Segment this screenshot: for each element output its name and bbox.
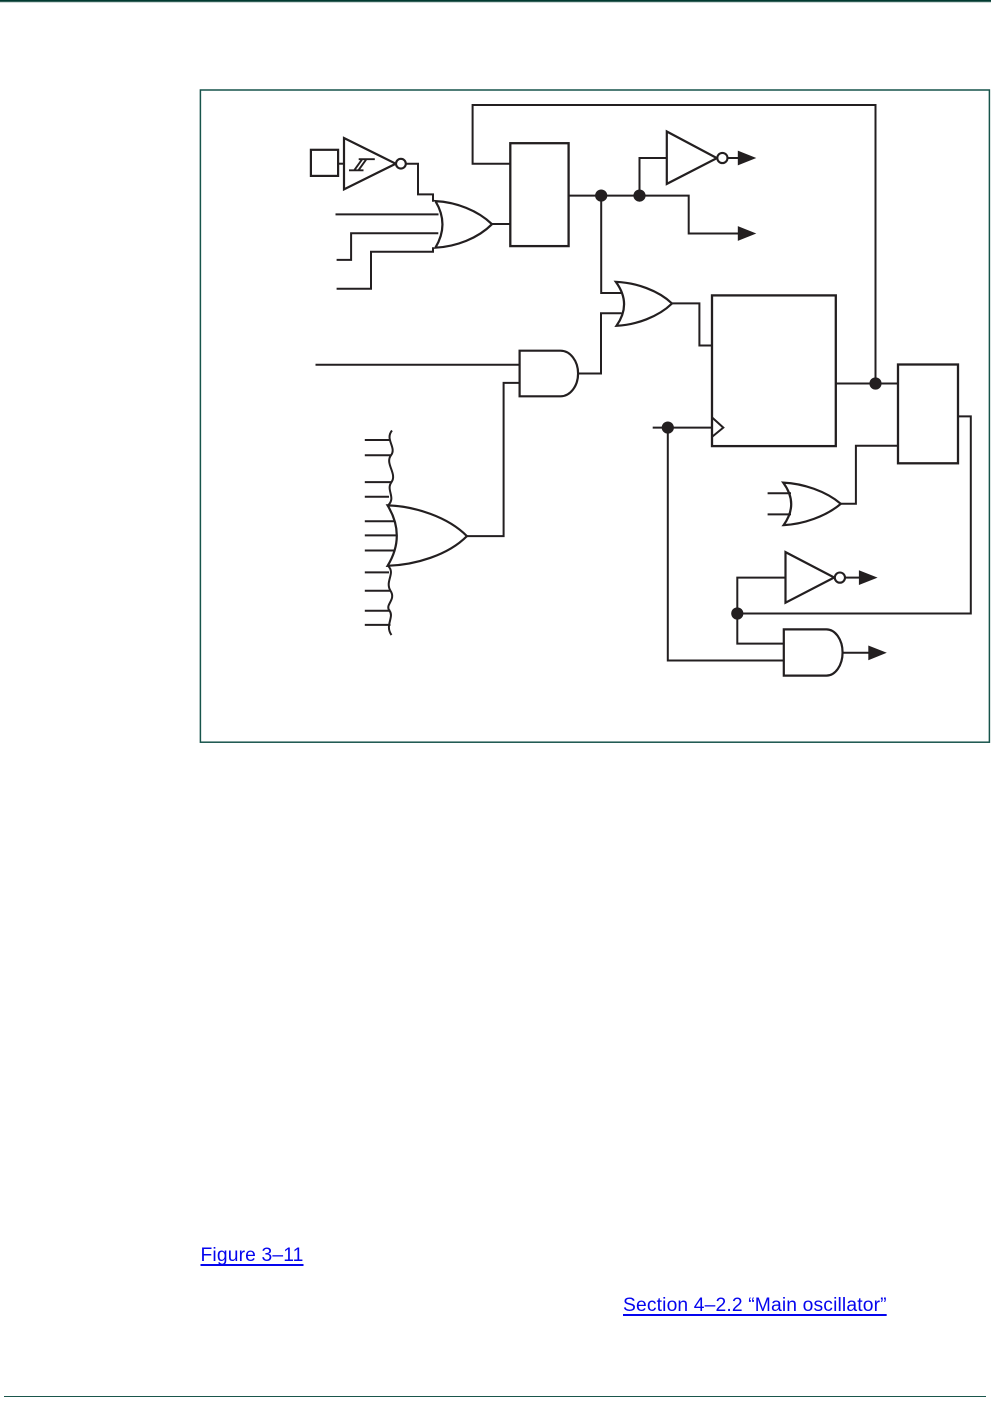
figure frame xyxy=(200,90,989,742)
clock input stub xyxy=(653,427,712,429)
multi-OR input stub 11 xyxy=(365,624,391,626)
wire U2 out xyxy=(728,157,739,159)
wire OR3 input stub a xyxy=(768,492,791,494)
node N1 junction dot xyxy=(595,190,607,202)
top green rule xyxy=(0,0,991,3)
wire OR3 input stub b xyxy=(768,513,791,515)
multi-OR input stub 1 xyxy=(365,439,391,441)
block B1 xyxy=(510,143,568,246)
inverter U3 bubble xyxy=(835,573,845,583)
wire OR1 input 3 xyxy=(337,233,439,260)
wire AND2 out xyxy=(843,652,869,654)
or-gate OR1 xyxy=(435,201,492,248)
wire OR1 to block B1 xyxy=(492,222,510,225)
inverter U2 triangle xyxy=(667,132,717,184)
node N4 junction dot xyxy=(662,422,674,434)
schmitt output bubble xyxy=(396,159,406,169)
multi-OR wavy bracket top xyxy=(388,431,393,506)
wire U3 out xyxy=(845,577,859,579)
link Section 4-2.2 xyxy=(623,1296,887,1316)
node N3 junction dot xyxy=(869,377,881,389)
block B3 xyxy=(898,365,958,464)
wire OR2 out to block B2 xyxy=(672,303,712,345)
node N2 junction dot xyxy=(633,190,645,202)
multi-OR input stub 9 xyxy=(365,590,391,592)
multi-OR input stub 6 xyxy=(365,534,398,536)
multi-OR input stub 8 xyxy=(365,571,389,573)
wire block B1 output to arrow xyxy=(569,196,739,234)
wire node N1 down to OR2 top input xyxy=(601,196,621,293)
hysteresis symbol xyxy=(349,159,375,170)
wire OR1 input 2 xyxy=(336,213,439,215)
and-gate AND1 xyxy=(520,351,578,397)
output arrow A2 xyxy=(738,226,757,241)
multi-OR input stub 5 xyxy=(365,520,395,522)
wire block B3 output loop to node N5 and AND2 top input xyxy=(737,416,971,643)
or-gate OR4 multi-input xyxy=(388,505,467,565)
multi-OR input stub 2 xyxy=(365,454,391,456)
wire node N2 up to inverter U2 input xyxy=(640,158,667,196)
or-gate OR3 xyxy=(783,483,841,525)
multi-OR wavy bracket bottom xyxy=(388,566,392,635)
multi-OR input stub 7 xyxy=(365,550,396,552)
inverter U3 triangle xyxy=(786,552,835,603)
block B2 xyxy=(712,295,836,446)
node N5 junction dot xyxy=(731,607,743,619)
or-gate OR2 xyxy=(616,282,672,326)
multi-OR input stub 4 xyxy=(365,496,389,498)
wire AND1 out up to OR2 bottom input xyxy=(578,313,622,373)
output arrow A1 xyxy=(738,151,757,166)
output arrow A3 xyxy=(859,570,878,585)
schmitt inverter U1 triangle xyxy=(344,138,396,189)
wire OR3 out to block B3 lower input xyxy=(841,446,898,504)
feedback wire net FB xyxy=(473,105,876,384)
wire OR1 input 4 xyxy=(337,247,433,288)
wire clock node down to AND2 bottom input xyxy=(668,428,784,661)
wire pad to schmitt xyxy=(338,163,344,165)
wire AND1 top input xyxy=(316,364,520,366)
clock wedge xyxy=(712,417,723,437)
pad square P1 xyxy=(311,150,338,176)
wire schmitt to OR1 input 1 xyxy=(406,164,433,202)
inverter U2 bubble xyxy=(717,153,727,163)
multi-OR input stub 10 xyxy=(365,610,391,612)
multi-OR input stub 3 xyxy=(365,481,391,483)
link Figure 3-11 xyxy=(201,1246,304,1266)
bottom green rule xyxy=(4,1396,986,1397)
and-gate AND2 xyxy=(784,629,843,675)
wire block B2 output to block B3 xyxy=(836,383,898,385)
wire node N5 up to inverter U3 input xyxy=(737,578,785,614)
output arrow A4 xyxy=(868,646,887,661)
wire multi-OR out to AND1 bottom input xyxy=(467,383,520,536)
